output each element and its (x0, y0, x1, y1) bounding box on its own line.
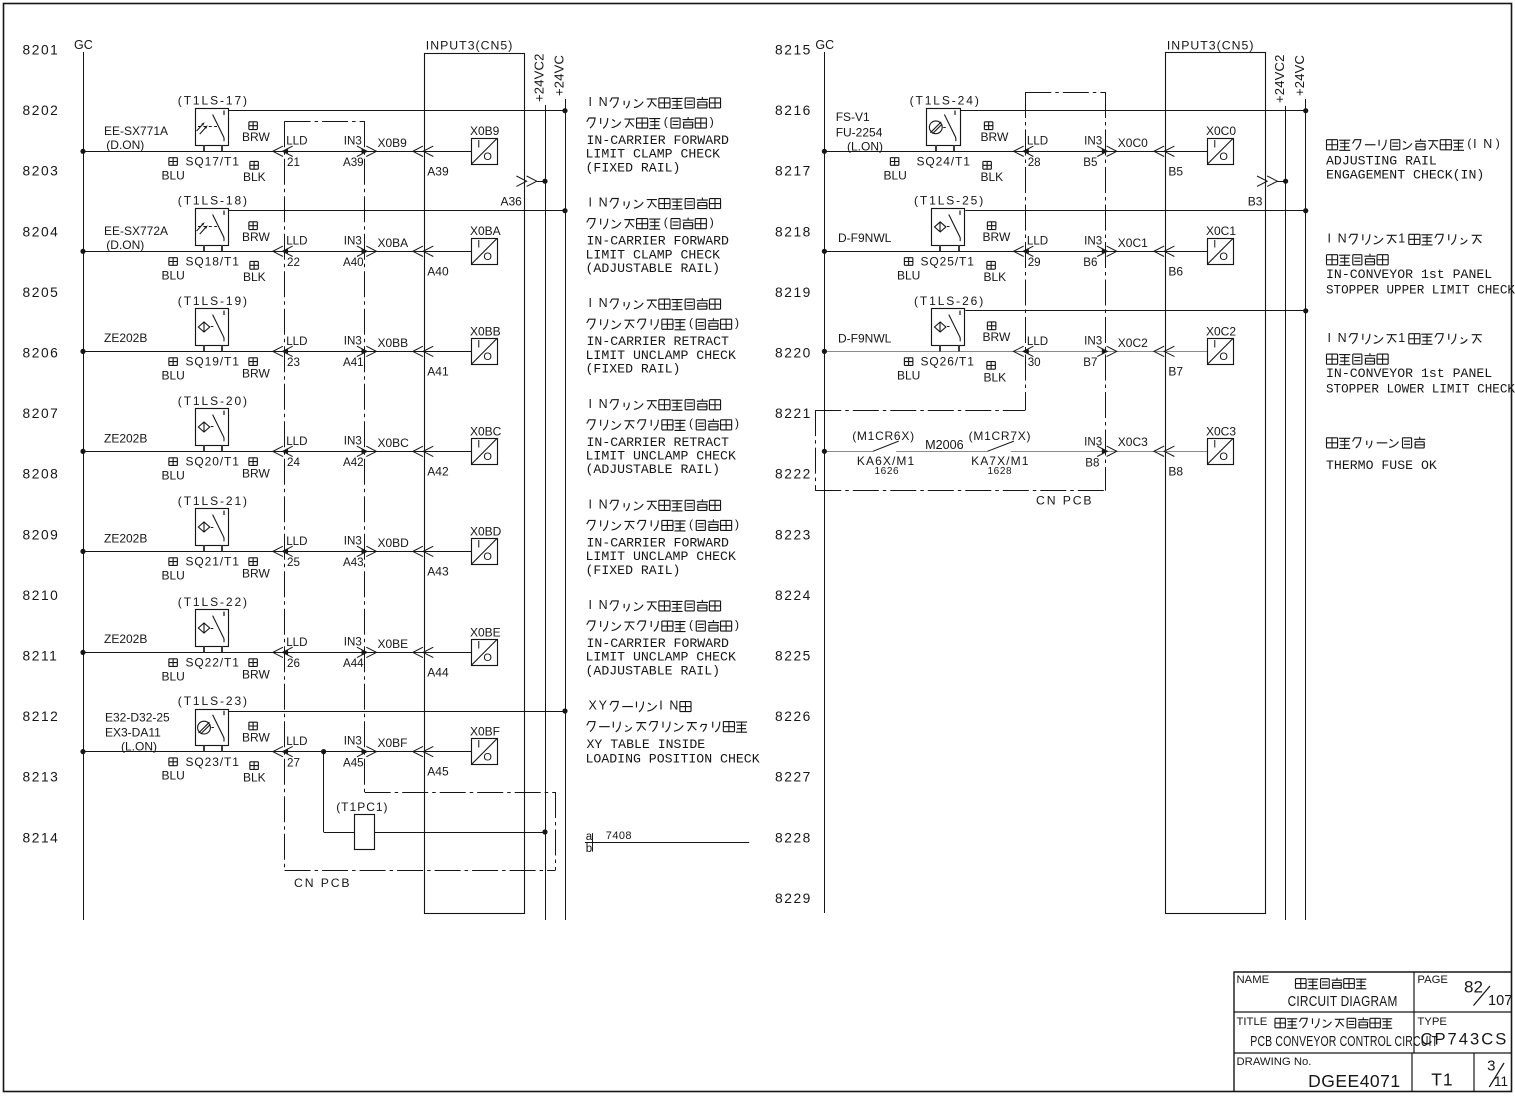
svg-text:FU-2254: FU-2254 (836, 125, 883, 139)
svg-text:1626: 1626 (875, 466, 900, 477)
svg-text:(T1LS-21): (T1LS-21) (178, 494, 249, 508)
svg-text:A45: A45 (427, 765, 449, 779)
svg-text:21: 21 (287, 156, 300, 169)
svg-text:(L.ON): (L.ON) (121, 740, 157, 754)
svg-text:I: I (1213, 238, 1216, 250)
svg-text:I: I (1473, 137, 1476, 151)
svg-text:O: O (483, 451, 492, 463)
svg-text:8219: 8219 (775, 285, 812, 300)
svg-text:8224: 8224 (775, 588, 812, 603)
svg-text:LLD: LLD (286, 535, 307, 548)
svg-text:I: I (589, 296, 592, 310)
svg-text:8215: 8215 (775, 42, 812, 57)
svg-text:SQ26/T1: SQ26/T1 (921, 355, 975, 369)
svg-text:BRW: BRW (242, 366, 270, 380)
svg-text:I: I (1213, 338, 1216, 350)
svg-text:CIRCUIT DIAGRAM: CIRCUIT DIAGRAM (1288, 993, 1398, 1010)
svg-text:O: O (483, 551, 492, 563)
svg-text:8204: 8204 (23, 224, 60, 239)
svg-text:LOADING POSITION CHECK: LOADING POSITION CHECK (586, 752, 760, 767)
svg-text:LLD: LLD (1027, 235, 1048, 248)
svg-text:8206: 8206 (23, 345, 60, 360)
svg-text:I: I (659, 699, 662, 713)
svg-text:27: 27 (287, 756, 300, 769)
svg-text:(T1PC1): (T1PC1) (336, 800, 388, 814)
svg-text:IN3: IN3 (1084, 234, 1102, 247)
svg-text:N: N (599, 397, 608, 411)
svg-text:(T1LS-18): (T1LS-18) (178, 194, 249, 208)
svg-text:BLK: BLK (984, 270, 1007, 284)
svg-text:A40: A40 (427, 264, 449, 278)
svg-text:(FIXED RAIL): (FIXED RAIL) (586, 362, 681, 377)
svg-text:LLD: LLD (286, 335, 307, 348)
svg-text:STOPPER LOWER LIMIT CHECK: STOPPER LOWER LIMIT CHECK (1326, 383, 1515, 397)
svg-text:O: O (1219, 351, 1228, 363)
svg-text:11: 11 (1494, 1074, 1508, 1089)
svg-text:O: O (1219, 251, 1228, 263)
svg-text:B7: B7 (1168, 364, 1183, 378)
svg-text:I: I (589, 196, 592, 210)
svg-text:8228: 8228 (775, 830, 812, 845)
svg-text:8217: 8217 (775, 164, 812, 179)
svg-text:26: 26 (287, 657, 300, 670)
svg-text:8226: 8226 (775, 709, 812, 724)
svg-text:(: ( (664, 114, 668, 128)
svg-text:BRW: BRW (242, 130, 270, 144)
svg-text:LLD: LLD (1027, 335, 1048, 348)
svg-text:X0BF: X0BF (470, 724, 500, 738)
svg-text:B5: B5 (1168, 164, 1183, 178)
svg-text:X0BD: X0BD (378, 536, 410, 550)
svg-text:N: N (599, 497, 608, 511)
svg-text:XY TABLE INSIDE: XY TABLE INSIDE (587, 737, 706, 752)
svg-text:N: N (1338, 331, 1347, 345)
svg-text:8203: 8203 (23, 164, 60, 179)
svg-text:O: O (1219, 451, 1228, 463)
svg-text:X0C2: X0C2 (1206, 324, 1236, 338)
svg-text:(T1LS-17): (T1LS-17) (178, 94, 249, 108)
svg-text:(T1LS-23): (T1LS-23) (178, 694, 249, 708)
svg-text:O: O (483, 652, 492, 664)
svg-text:ZE202B: ZE202B (104, 331, 147, 345)
svg-text:B6: B6 (1083, 256, 1097, 269)
svg-text:23: 23 (287, 356, 300, 369)
svg-text:A39: A39 (427, 164, 449, 178)
svg-text:FS-V1: FS-V1 (836, 110, 870, 124)
svg-text:(M1CR6X): (M1CR6X) (852, 429, 915, 443)
svg-text:): ) (710, 114, 714, 128)
svg-text:I: I (477, 739, 480, 751)
svg-text:X0C3: X0C3 (1206, 424, 1236, 438)
svg-text:X0B9: X0B9 (378, 136, 408, 150)
svg-text:8210: 8210 (23, 588, 60, 603)
svg-text:D-F9NWL: D-F9NWL (838, 331, 892, 345)
svg-text:PAGE: PAGE (1417, 974, 1448, 986)
svg-text:PCB CONVEYOR CONTROL CIRCUIT: PCB CONVEYOR CONTROL CIRCUIT (1250, 1032, 1438, 1049)
svg-text:X0BA: X0BA (378, 236, 409, 250)
svg-text:(: ( (1467, 136, 1471, 150)
svg-text:A41: A41 (343, 356, 364, 369)
svg-text:EE-SX771A: EE-SX771A (104, 124, 168, 138)
svg-text:(ADJUSTABLE RAIL): (ADJUSTABLE RAIL) (586, 261, 721, 276)
svg-text:): ) (1496, 136, 1500, 150)
svg-text:SQ24/T1: SQ24/T1 (917, 154, 971, 168)
svg-text:8220: 8220 (775, 345, 812, 360)
svg-text:INPUT3(CN5): INPUT3(CN5) (426, 39, 514, 53)
svg-text:A36: A36 (500, 194, 522, 208)
svg-text:I: I (477, 238, 480, 250)
svg-text:BLK: BLK (243, 770, 266, 784)
svg-text:DRAWING No.: DRAWING No. (1237, 1056, 1312, 1068)
svg-text:B8: B8 (1168, 464, 1183, 478)
svg-text:LLD: LLD (1027, 135, 1048, 148)
svg-text:ZE202B: ZE202B (104, 632, 147, 646)
svg-text:IN3: IN3 (1084, 436, 1102, 449)
svg-text:O: O (483, 351, 492, 363)
svg-text:LLD: LLD (286, 235, 307, 248)
svg-text:28: 28 (1028, 156, 1041, 169)
svg-text:BLK: BLK (243, 270, 266, 284)
svg-text:8218: 8218 (775, 224, 812, 239)
svg-text:X: X (589, 699, 598, 713)
svg-text:LLD: LLD (286, 135, 307, 148)
svg-text:TYPE: TYPE (1417, 1016, 1447, 1028)
svg-text:1: 1 (1398, 231, 1405, 245)
svg-text:Y: Y (599, 699, 608, 713)
svg-text:BLU: BLU (884, 168, 907, 182)
svg-text:I: I (1328, 231, 1331, 245)
svg-text:BRW: BRW (983, 230, 1011, 244)
svg-text:(FIXED RAIL): (FIXED RAIL) (586, 160, 681, 175)
svg-text:X0BF: X0BF (378, 736, 408, 750)
svg-text:B3: B3 (1248, 194, 1263, 208)
svg-text:IN3: IN3 (344, 134, 362, 147)
svg-text:X0BC: X0BC (378, 436, 410, 450)
svg-text:8213: 8213 (23, 770, 60, 785)
svg-text:I: I (589, 95, 592, 109)
svg-text:82: 82 (1464, 977, 1483, 996)
svg-text:O: O (483, 151, 492, 163)
svg-text:X0C1: X0C1 (1206, 224, 1236, 238)
svg-text:(T1LS-22): (T1LS-22) (178, 595, 249, 609)
svg-text:X0C2: X0C2 (1118, 336, 1148, 350)
svg-text:A43: A43 (343, 556, 364, 569)
svg-text:I: I (477, 438, 480, 450)
svg-text:30: 30 (1028, 356, 1041, 369)
svg-text:A45: A45 (343, 756, 364, 769)
svg-text:DGEE4071: DGEE4071 (1308, 1071, 1401, 1091)
svg-text:I: I (477, 138, 480, 150)
svg-text:): ) (735, 517, 739, 531)
svg-text:NAME: NAME (1237, 974, 1270, 986)
svg-text:CN PCB: CN PCB (1036, 494, 1093, 508)
svg-text:b: b (586, 843, 592, 855)
svg-text:X0C0: X0C0 (1118, 136, 1148, 150)
svg-text:(ADJUSTABLE RAIL): (ADJUSTABLE RAIL) (586, 462, 721, 477)
svg-text:A41: A41 (427, 364, 449, 378)
svg-text:O: O (1219, 151, 1228, 163)
svg-text:SQ25/T1: SQ25/T1 (921, 254, 975, 268)
svg-text:107: 107 (1488, 993, 1512, 1009)
svg-text:N: N (1338, 231, 1347, 245)
svg-text:N: N (599, 196, 608, 210)
svg-text:SQ19/T1: SQ19/T1 (186, 355, 240, 369)
svg-text:8205: 8205 (23, 285, 60, 300)
svg-text:BLU: BLU (162, 769, 185, 783)
svg-text:D-F9NWL: D-F9NWL (838, 231, 892, 245)
svg-text:I: I (589, 497, 592, 511)
svg-text:X0BC: X0BC (470, 424, 502, 438)
svg-text:I: I (1328, 331, 1331, 345)
svg-text:(T1LS-20): (T1LS-20) (178, 394, 249, 408)
svg-text:ZE202B: ZE202B (104, 431, 147, 445)
svg-text:A42: A42 (343, 456, 364, 469)
svg-text:a: a (586, 831, 593, 843)
svg-text:IN3: IN3 (344, 234, 362, 247)
svg-text:CN PCB: CN PCB (294, 876, 351, 890)
svg-text:N: N (599, 296, 608, 310)
svg-text:(: ( (664, 215, 668, 229)
svg-text:A40: A40 (343, 256, 364, 269)
svg-text:EE-SX772A: EE-SX772A (104, 224, 168, 238)
svg-text:A43: A43 (427, 564, 449, 578)
svg-text:8214: 8214 (23, 830, 60, 845)
svg-text:I: I (589, 598, 592, 612)
svg-text:+24VC2: +24VC2 (531, 53, 546, 102)
svg-text:GC: GC (815, 38, 834, 52)
svg-text:): ) (735, 617, 739, 631)
svg-text:X0BD: X0BD (470, 524, 502, 538)
svg-text:29: 29 (1028, 256, 1041, 269)
svg-text:IN-CONVEYOR 1st PANEL: IN-CONVEYOR 1st PANEL (1326, 267, 1492, 282)
svg-text:BLU: BLU (162, 168, 185, 182)
svg-text:IN3: IN3 (344, 334, 362, 347)
svg-text:I: I (477, 639, 480, 651)
svg-text:IN3: IN3 (344, 534, 362, 547)
svg-text:SQ21/T1: SQ21/T1 (186, 555, 240, 569)
svg-text:CP743CS: CP743CS (1421, 1029, 1509, 1048)
svg-text:+24VC2: +24VC2 (1272, 54, 1287, 103)
svg-text:ZE202B: ZE202B (104, 531, 147, 545)
svg-text:X0BB: X0BB (378, 336, 409, 350)
svg-text:SQ18/T1: SQ18/T1 (186, 254, 240, 268)
svg-text:LLD: LLD (286, 735, 307, 748)
svg-text:I: I (1213, 438, 1216, 450)
svg-text:8211: 8211 (23, 648, 59, 663)
svg-text:1628: 1628 (988, 466, 1013, 477)
svg-text:8209: 8209 (23, 527, 60, 542)
svg-text:STOPPER UPPER LIMIT CHECK: STOPPER UPPER LIMIT CHECK (1326, 283, 1515, 297)
svg-text:E32-D32-25: E32-D32-25 (105, 710, 170, 724)
svg-text:GC: GC (74, 38, 93, 52)
svg-text:X0BA: X0BA (470, 224, 501, 238)
svg-text:B8: B8 (1085, 457, 1099, 470)
svg-text:3: 3 (1487, 1057, 1495, 1074)
svg-text:A42: A42 (427, 464, 449, 478)
svg-text:N: N (599, 95, 608, 109)
svg-text:(ADJUSTABLE RAIL): (ADJUSTABLE RAIL) (586, 663, 721, 678)
svg-text:BLU: BLU (162, 468, 185, 482)
svg-text:(T1LS-24): (T1LS-24) (910, 94, 981, 108)
svg-text:(T1LS-19): (T1LS-19) (178, 294, 249, 308)
svg-text:(: ( (689, 416, 693, 430)
svg-text:O: O (483, 751, 492, 763)
svg-text:BLU: BLU (162, 669, 185, 683)
svg-text:B6: B6 (1168, 264, 1183, 278)
svg-text:BRW: BRW (242, 566, 270, 580)
svg-text:SQ23/T1: SQ23/T1 (186, 755, 240, 769)
svg-text:BLU: BLU (897, 368, 920, 382)
svg-text:(D.ON): (D.ON) (106, 138, 144, 152)
svg-text:IN3: IN3 (344, 735, 362, 748)
svg-text:IN3: IN3 (344, 434, 362, 447)
svg-text:I: I (477, 538, 480, 550)
svg-text:(M1CR7X): (M1CR7X) (969, 429, 1032, 443)
svg-text:8221: 8221 (775, 406, 812, 421)
svg-text:8216: 8216 (775, 103, 812, 118)
svg-text:+24VC: +24VC (1292, 55, 1307, 96)
svg-text:BRW: BRW (242, 730, 270, 744)
svg-text:X0B9: X0B9 (470, 124, 500, 138)
svg-text:24: 24 (287, 456, 300, 469)
svg-text:8202: 8202 (23, 103, 60, 118)
svg-text:IN3: IN3 (344, 635, 362, 648)
svg-text:BLU: BLU (162, 268, 185, 282)
svg-text:8227: 8227 (775, 770, 812, 785)
svg-text:BRW: BRW (242, 230, 270, 244)
svg-text:I: I (1213, 138, 1216, 150)
svg-text:BLU: BLU (162, 568, 185, 582)
svg-text:8225: 8225 (775, 648, 812, 663)
svg-text:25: 25 (287, 556, 300, 569)
svg-text:IN3: IN3 (1084, 334, 1102, 347)
svg-text:BRW: BRW (242, 667, 270, 681)
svg-text:(D.ON): (D.ON) (106, 238, 144, 252)
svg-text:N: N (1483, 137, 1492, 151)
svg-text:SQ17/T1: SQ17/T1 (186, 154, 240, 168)
svg-text:INPUT3(CN5): INPUT3(CN5) (1167, 39, 1255, 53)
svg-text:I: I (589, 397, 592, 411)
svg-text:BLU: BLU (897, 268, 920, 282)
svg-text:X0BE: X0BE (378, 637, 409, 651)
svg-text:B7: B7 (1083, 356, 1097, 369)
svg-text:BRW: BRW (242, 466, 270, 480)
svg-text:B5: B5 (1083, 156, 1097, 169)
svg-text:TITLE: TITLE (1237, 1016, 1268, 1028)
svg-text:BLU: BLU (162, 368, 185, 382)
svg-text:T1: T1 (1431, 1069, 1453, 1089)
svg-text:O: O (483, 251, 492, 263)
svg-text:M2006: M2006 (925, 438, 964, 452)
svg-text:BLK: BLK (984, 370, 1007, 384)
svg-text:8201: 8201 (23, 42, 60, 57)
svg-text:8229: 8229 (775, 891, 812, 906)
svg-text:7408: 7408 (606, 830, 632, 842)
svg-text:IN-CONVEYOR 1st PANEL: IN-CONVEYOR 1st PANEL (1326, 366, 1492, 381)
svg-text:X0BE: X0BE (470, 625, 501, 639)
svg-text:BRW: BRW (981, 130, 1009, 144)
svg-text:X0C0: X0C0 (1206, 124, 1236, 138)
svg-text:LLD: LLD (286, 636, 307, 649)
svg-text:): ) (735, 416, 739, 430)
svg-text:): ) (710, 215, 714, 229)
svg-text:1: 1 (1398, 331, 1405, 345)
svg-text:(L.ON): (L.ON) (847, 139, 883, 153)
svg-text:BLK: BLK (243, 170, 266, 184)
svg-text:I: I (477, 338, 480, 350)
svg-text:A39: A39 (343, 156, 364, 169)
svg-text:8222: 8222 (775, 467, 812, 482)
svg-text:8208: 8208 (23, 467, 60, 482)
svg-text:A44: A44 (343, 657, 364, 670)
svg-text:IN3: IN3 (1084, 134, 1102, 147)
svg-text:(: ( (689, 517, 693, 531)
svg-text:SQ22/T1: SQ22/T1 (186, 656, 240, 670)
svg-text:N: N (669, 699, 678, 713)
svg-text:THERMO FUSE OK: THERMO FUSE OK (1326, 458, 1437, 473)
svg-text:X0C3: X0C3 (1118, 435, 1148, 449)
svg-text:): ) (735, 316, 739, 330)
svg-text:8207: 8207 (23, 406, 60, 421)
svg-text:LLD: LLD (286, 435, 307, 448)
svg-text:A44: A44 (427, 665, 449, 679)
svg-text:(: ( (689, 316, 693, 330)
svg-text:BLK: BLK (981, 170, 1004, 184)
svg-text:(: ( (689, 617, 693, 631)
svg-text:N: N (599, 598, 608, 612)
svg-text:8223: 8223 (775, 527, 812, 542)
svg-text:+24VC: +24VC (551, 55, 566, 96)
svg-text:22: 22 (287, 256, 300, 269)
svg-text:ENGAGEMENT CHECK(IN): ENGAGEMENT CHECK(IN) (1326, 168, 1484, 183)
svg-text:8212: 8212 (23, 709, 60, 724)
svg-text:EX3-DA11: EX3-DA11 (105, 725, 161, 739)
svg-text:BRW: BRW (983, 330, 1011, 344)
svg-text:X0C1: X0C1 (1118, 236, 1148, 250)
svg-text:X0BB: X0BB (470, 324, 501, 338)
svg-text:ADJUSTING RAIL: ADJUSTING RAIL (1326, 154, 1437, 169)
svg-text:SQ20/T1: SQ20/T1 (186, 455, 240, 469)
svg-text:(T1LS-26): (T1LS-26) (914, 294, 985, 308)
svg-text:(FIXED RAIL): (FIXED RAIL) (586, 563, 681, 578)
svg-text:(T1LS-25): (T1LS-25) (914, 194, 985, 208)
